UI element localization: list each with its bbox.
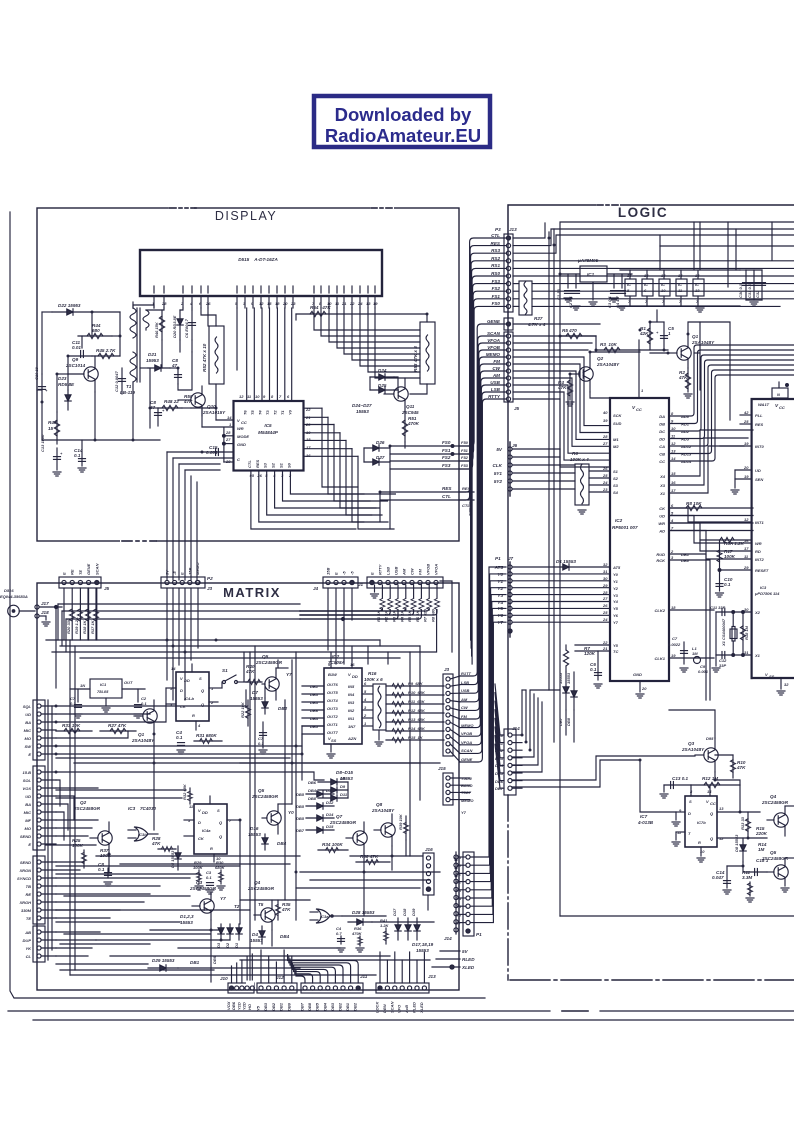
svg-text:P1: P1 [476,932,482,937]
svg-text:28: 28 [602,434,608,439]
svg-text:Q: Q [710,811,714,816]
svg-text:2SA1048Y: 2SA1048Y [596,362,620,367]
svg-text:DD: DD [659,437,665,442]
svg-text:M1: M1 [613,437,619,442]
OR gate IC3a [310,909,342,923]
svg-text:J4: J4 [313,586,319,591]
transistor Q5 2SC2458GR [761,850,794,892]
svg-text:5: 5 [671,511,674,516]
svg-text:GENE: GENE [461,757,473,762]
IC2 bottom left components [558,645,610,742]
svg-text:18: 18 [671,605,676,610]
resistor array R53 47K x 8 [413,322,435,384]
svg-text:GND: GND [237,442,246,447]
svg-text:D8: D8 [340,776,346,781]
svg-text:DB4: DB4 [322,1002,327,1011]
svg-text:X4: X4 [659,474,666,479]
svg-text:N: N [777,392,780,397]
svg-text:15953: 15953 [146,358,159,363]
long power rails in logic channel [549,222,714,742]
svg-text:AB: AB [24,930,31,935]
svg-text:D2: D2 [225,942,230,948]
svg-text:SEND: SEND [20,860,31,865]
svg-text:R10 68K: R10 68K [408,690,426,695]
extra logic top verticals [660,222,772,287]
svg-text:0.0022: 0.0022 [668,642,681,647]
svg-text:D: D [180,688,183,693]
svg-text:R16: R16 [368,671,377,676]
svg-text:DB5: DB5 [315,1002,320,1011]
page frame left and bottom [10,212,485,998]
svg-text:15: 15 [267,301,272,306]
svg-text:RES: RES [255,459,260,468]
diode D16 15553 [248,826,287,850]
svg-text:5V: 5V [165,570,170,575]
svg-text:T5ON: T5ON [461,776,472,781]
svg-text:C1 33: C1 33 [556,289,561,300]
svg-text:FS3: FS3 [442,463,451,468]
svg-text:25: 25 [602,473,608,478]
resistor R1 42K [639,322,653,350]
zener D23 RD5.8E [58,376,75,410]
svg-text:Y5: Y5 [613,643,619,648]
svg-text:HO: HO [247,1003,252,1010]
extra matrix lower horizontals [56,640,420,980]
IC3 7C4030 OR gate b [128,806,158,841]
capacitor C8 0.1 (matrix) [98,862,112,886]
svg-text:R48 22: R48 22 [164,399,179,404]
svg-text:15553: 15553 [250,696,263,701]
svg-text:VFOA: VFOA [434,564,439,575]
svg-text:2SA1048Y: 2SA1048Y [691,340,715,345]
svg-text:OUT7: OUT7 [327,730,338,735]
svg-text:C7: C7 [672,636,678,641]
svg-text:19: 19 [744,474,749,479]
diodes D26 D27 [364,440,390,465]
connector J5 (matrix top) [59,563,110,640]
svg-text:5Y1: 5Y1 [494,471,503,476]
svg-text:27: 27 [225,437,231,442]
svg-text:RLED: RLED [412,1002,417,1013]
banner box RadioAmateur.EU [314,96,490,147]
svg-text:+: + [656,330,659,335]
svg-text:Y4: Y4 [497,600,503,605]
resistor R2 47K [678,368,692,398]
svg-text:CA: CA [659,444,665,449]
svg-text:1: 1 [364,721,367,726]
svg-text:R39 10K: R39 10K [398,813,403,830]
svg-text:FM: FM [493,359,500,364]
transistor Q2 2SA1048Y [570,352,620,392]
svg-text:M2: M2 [613,444,619,449]
svg-text:RS0: RS0 [491,271,500,276]
svg-text:DB6: DB6 [308,780,317,785]
svg-text:100K x 4: 100K x 4 [570,457,589,462]
svg-text:SS: SS [331,738,337,743]
svg-text:40: 40 [602,410,608,415]
resistor R14 1M [758,842,767,852]
svg-text:RE: RE [70,569,75,575]
bottom connector J11 [288,955,368,1011]
svg-text:RS3: RS3 [491,248,500,253]
resistor R46 15K (vertical) [154,310,165,340]
connector J6 [493,442,575,496]
svg-text:LOGIC: LOGIC [618,205,668,220]
svg-text:R33 10K: R33 10K [62,723,81,728]
svg-text:S1: S1 [222,668,228,673]
svg-text:2SA1048Y: 2SA1048Y [371,808,395,813]
diode D20 RD3.8E (vertical label) [172,310,183,340]
J5 pull-down resistors R17-R20 [66,609,99,634]
svg-text:Y5: Y5 [256,1005,261,1011]
svg-text:R: R [698,840,701,845]
svg-text:MIC: MIC [24,728,31,733]
left jack D516 EQ044-35683A [0,588,62,688]
svg-text:AT5: AT5 [612,565,621,570]
svg-text:C11 33P: C11 33P [710,605,726,610]
capacitor C10 0.1 [716,570,733,597]
capacitor C5 1 [656,322,674,350]
svg-text:CLK2: CLK2 [655,608,666,613]
svg-text:Q: Q [201,688,205,693]
svg-text:DB8: DB8 [307,1002,312,1011]
svg-text:S2: S2 [271,462,276,468]
svg-text:MF: MF [25,818,31,823]
svg-text:SQL: SQL [23,704,32,709]
svg-text:24: 24 [357,301,363,306]
svg-text:18: 18 [275,301,280,306]
diode D28 15553 [348,910,375,925]
svg-text:LSB: LSB [386,567,391,575]
svg-text:D1,2,3: D1,2,3 [180,914,194,919]
svg-text:CTL: CTL [442,494,451,499]
svg-text:J16: J16 [425,847,433,852]
resistor R13 33 [740,812,751,838]
svg-text:Y3: Y3 [497,593,503,598]
capacitor C14 0.047 [712,866,743,894]
svg-text:LSB: LSB [491,387,501,392]
svg-text:DB2: DB2 [271,1002,276,1011]
svg-text:24: 24 [602,617,608,622]
gap connector P1 AT5 Y0-Y7 [453,852,482,937]
resistor R44 680 [78,323,112,339]
svg-text:6: 6 [644,288,647,293]
svg-text:R: R [210,846,213,851]
svg-text:SW: SW [25,744,33,749]
svg-text:MATRIX: MATRIX [223,585,281,600]
diode D21 15953 [146,352,170,371]
svg-text:1.2K: 1.2K [380,923,390,928]
svg-text:VFO: VFO [397,1004,402,1013]
svg-text:IN3: IN3 [348,700,355,705]
svg-text:IC3a: IC3a [320,914,329,919]
svg-text:PLL: PLL [755,413,763,418]
svg-text:IC4-b: IC4-b [184,696,195,701]
IC4-a flip-flop (matrix) [184,796,240,862]
svg-text:SCAN: SCAN [389,1002,394,1013]
svg-text:WA1T: WA1T [758,402,770,407]
svg-text:1M: 1M [692,651,698,656]
svg-text:RES: RES [755,422,764,427]
svg-text:Downloaded by: Downloaded by [335,104,472,125]
svg-text:47K: 47K [151,841,161,846]
svg-text:T5OF: T5OF [461,790,472,795]
svg-text:RUD: RUD [656,552,665,557]
svg-text:IN2: IN2 [348,708,355,713]
LCD pin stubs and pin numbers [0,0,1,1]
vertical feed wires DISPLAY to MATRIX [167,452,232,580]
svg-text:2SA1048Y: 2SA1048Y [681,747,705,752]
svg-text:7: 7 [671,526,674,531]
dash-dot cut marks on borders [62,203,620,986]
svg-text:X3: X3 [659,483,666,488]
svg-text:RD: RD [755,549,761,554]
svg-text:13: 13 [366,301,371,306]
capacitor C15 0.001 [206,445,224,456]
svg-text:CB: CB [659,452,665,457]
svg-text:IC7: IC7 [640,814,648,819]
svg-text:T2: T2 [273,410,278,415]
resistor R15 220K [748,826,768,838]
svg-text:D95: D95 [706,736,714,741]
svg-text:RES: RES [442,486,452,491]
resistor R32 68K [182,783,193,804]
svg-text:J14: J14 [444,936,452,941]
matrix right connector column J2 [443,667,453,756]
resistor R38 47K [356,854,390,865]
svg-text:J7: J7 [508,556,514,561]
svg-text:J17: J17 [41,601,49,606]
MATRIX block box [37,583,459,990]
svg-text:P1: P1 [495,556,501,561]
svg-text:D27: D27 [376,455,385,460]
svg-text:22: 22 [349,301,355,306]
svg-text:23: 23 [290,301,296,306]
resistor R48 15 [48,412,60,444]
svg-text:OUT4: OUT4 [327,698,338,703]
transistor Q1 2SA1048Y [668,334,715,368]
IC3 left pin wires [669,415,752,570]
svg-text:R53 47K x 8: R53 47K x 8 [413,346,418,372]
svg-text:1N7: 1N7 [348,724,356,729]
svg-text:C15 1: C15 1 [756,858,769,863]
connector J4 (matrix top) [313,568,358,591]
svg-text:D: D [688,811,691,816]
svg-text:2SA1015Y: 2SA1015Y [202,410,226,415]
gap labels TSON BAND TSOF MEMO [461,776,474,815]
svg-text:Y7: Y7 [461,810,467,815]
svg-text:330M: 330M [21,908,32,913]
matrix right connector J16 [423,847,434,895]
svg-text:17: 17 [744,546,749,551]
svg-text:R20 330: R20 330 [66,618,71,634]
svg-text:FS0: FS0 [442,440,451,445]
resistor R27 47K (matrix) [100,723,136,734]
resistor R37 100K [100,848,112,858]
svg-text:R45 2.7K: R45 2.7K [96,348,116,353]
Q1/Q2 area wires [560,310,730,420]
svg-text:V: V [237,418,240,423]
matrix right connector J15 [438,766,470,805]
svg-text:Q5: Q5 [770,850,777,855]
svg-text:D20 RD3.8E: D20 RD3.8E [172,315,177,338]
svg-text:MO: MO [25,736,32,741]
left area long wires [48,690,324,960]
svg-text:IC3: IC3 [128,806,136,811]
svg-text:18: 18 [695,288,700,293]
svg-text:RP5001 007: RP5001 007 [612,525,638,530]
svg-text:CC: CC [636,407,642,412]
LOGIC block box [508,205,794,980]
resistor R8 10K on CK line [686,501,702,511]
svg-text:24: 24 [602,480,608,485]
svg-text:12: 12 [239,394,244,399]
svg-text:T2: T2 [234,904,240,909]
wire bundle J5 left channel to MATRIX right edge [460,324,506,762]
svg-text:SEND: SEND [20,834,31,839]
svg-text:11: 11 [247,394,252,399]
svg-text:S2: S2 [613,476,619,481]
LCD pin stubs, numbers and inner tick labels [152,286,378,308]
svg-text:DD: DD [202,810,208,815]
svg-text:X1: X1 [659,491,666,496]
svg-text:μPD7806 114: μPD7806 114 [754,591,780,596]
svg-text:IC2: IC2 [332,654,340,659]
svg-text:D22 15953: D22 15953 [58,303,81,308]
diodes D17,18,19 15553 [392,908,434,953]
capacitor C3 0.1 [206,870,214,894]
resistor R51 470K [402,412,419,442]
svg-text:D10: D10 [326,788,334,793]
resistor R10 47K [715,755,746,778]
IC2 right AD bus staircase [669,345,794,461]
svg-text:AM: AM [460,697,468,702]
resistor R33 10K (matrix) [56,723,92,734]
svg-text:OUT: OUT [124,680,133,685]
svg-text:42: 42 [743,410,749,415]
svg-text:CL: CL [26,954,32,959]
svg-text:680: 680 [92,328,100,333]
resistor R11 3.3M [742,870,754,902]
svg-text:120K: 120K [584,651,596,656]
svg-text:100K x 6: 100K x 6 [364,677,383,682]
svg-text:R13 68K: R13 68K [408,717,426,722]
svg-text:MEMO: MEMO [486,352,501,357]
svg-text:CC: CC [710,801,716,806]
svg-text:Q8: Q8 [376,802,383,807]
svg-text:S3: S3 [613,483,619,488]
resistor R39 10K [398,813,409,840]
svg-text:6: 6 [287,394,290,399]
svg-text:IC1: IC1 [587,272,595,277]
svg-text:UD: UD [25,794,31,799]
svg-text:INT1: INT1 [755,520,764,525]
resistor array R27 4.7K x 4 [519,281,546,327]
svg-text:R: R [192,713,195,718]
svg-text:21: 21 [341,301,347,306]
svg-text:14: 14 [227,415,232,420]
svg-text:AZN: AZN [347,736,356,741]
svg-text:FM: FM [461,714,467,719]
svg-text:23: 23 [602,487,608,492]
svg-text:DB3: DB3 [330,1002,335,1011]
wires around IC5 left / T1 bottom [150,314,427,462]
svg-text:AD: AD [658,529,665,534]
svg-text:RTTY: RTTY [488,394,501,399]
svg-text:6: 6 [671,503,674,508]
svg-text:33P: 33P [719,663,726,668]
svg-text:V: V [348,672,351,677]
matrix interior long horizontals [56,726,440,968]
transistor Q8 2SA1048Y [371,802,395,846]
svg-text:E: E [28,752,31,757]
svg-text:2: 2 [363,713,367,718]
svg-text:15.B: 15.B [23,770,32,775]
resistor R36 470K [351,926,364,952]
svg-text:4: 4 [363,697,367,702]
IC2 right control wires [669,430,753,700]
svg-text:R32 68K: R32 68K [182,783,187,800]
diode cluster D10-D15 right [296,788,334,833]
svg-text:Q5: Q5 [258,788,265,793]
svg-text:SYNCD: SYNCD [17,876,31,881]
transistor Q10 2SA1015Y [178,386,226,416]
svg-text:10: 10 [661,288,666,293]
svg-text:47K: 47K [736,765,746,770]
svg-text:CC: CC [659,459,665,464]
svg-text:R14 68K: R14 68K [408,726,426,731]
svg-text:2SC2458GR: 2SC2458GR [189,886,217,891]
svg-text:D14: D14 [326,812,334,817]
svg-text:AM: AM [492,373,500,378]
svg-text:2SC945: 2SC945 [401,410,419,415]
svg-text:S1: S1 [613,469,619,474]
svg-text:Q7: Q7 [336,814,343,819]
resistor R35 47K [275,900,291,920]
capacitor C10 10 [34,366,48,402]
svg-text:27: 27 [602,596,608,601]
svg-text:14: 14 [171,666,176,671]
svg-text:Y2: Y2 [497,586,503,591]
svg-text:14: 14 [671,456,676,461]
svg-text:-5: -5 [350,571,355,575]
svg-text:DB7: DB7 [300,1002,305,1011]
svg-text:DB4: DB4 [308,788,317,793]
transformer T1 LB-119 [120,302,149,395]
svg-text:13: 13 [671,449,676,454]
svg-text:IC: IC [661,282,665,287]
svg-text:T4: T4 [258,410,263,415]
svg-text:J12: J12 [276,975,284,980]
svg-text:47K: 47K [557,385,567,390]
svg-text:FS2: FS2 [442,455,451,460]
svg-text:R22 10K: R22 10K [240,701,245,718]
wire bus LCD pins to R53 [314,308,420,378]
resistor R45 2.7K [92,348,120,359]
diode D1 15553 [556,559,576,570]
svg-text:20: 20 [743,465,749,470]
resistor R41 1.2K [380,918,390,944]
svg-text:Q4: Q4 [770,794,777,799]
svg-text:FS1: FS1 [442,448,451,453]
svg-text:V: V [706,799,709,804]
svg-text:470K: 470K [351,931,363,936]
svg-text:Q11: Q11 [406,404,415,409]
svg-text:2SC2458GR: 2SC2458GR [329,820,357,825]
svg-text:1: 1 [229,422,232,427]
svg-text:DB: DB [659,422,665,427]
svg-text:10: 10 [671,426,676,431]
